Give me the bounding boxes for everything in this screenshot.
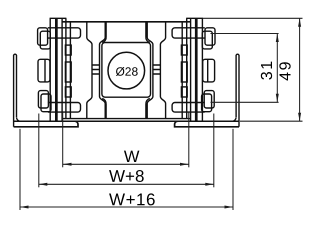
svg-text:W+8: W+8 <box>109 167 144 186</box>
svg-text:49: 49 <box>278 60 295 81</box>
svg-text:31: 31 <box>259 59 276 80</box>
svg-text:W: W <box>124 148 140 166</box>
svg-text:W+16: W+16 <box>109 190 156 209</box>
svg-text:Ø28: Ø28 <box>115 65 138 79</box>
